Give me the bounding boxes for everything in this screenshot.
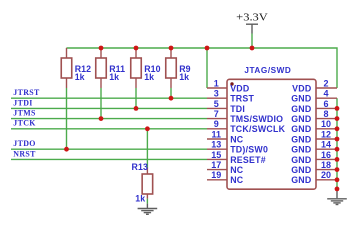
svg-text:6: 6: [323, 99, 328, 109]
svg-text:NC: NC: [230, 134, 244, 144]
svg-text:9: 9: [214, 119, 219, 129]
svg-text:15: 15: [211, 150, 221, 160]
svg-text:GND: GND: [291, 165, 311, 175]
svg-text:GND: GND: [291, 175, 311, 185]
svg-text:TCK/SWCLK: TCK/SWCLK: [230, 124, 285, 134]
svg-text:JTCK: JTCK: [13, 119, 36, 128]
svg-text:1k: 1k: [135, 193, 145, 203]
svg-text:JTAG/SWD: JTAG/SWD: [244, 66, 291, 75]
svg-text:10: 10: [321, 119, 331, 129]
svg-text:1k: 1k: [144, 72, 154, 82]
svg-text:JTMS: JTMS: [13, 109, 36, 118]
svg-text:1k: 1k: [109, 72, 119, 82]
svg-text:2: 2: [323, 78, 328, 88]
svg-text:13: 13: [211, 140, 221, 150]
svg-text:GND: GND: [291, 124, 311, 134]
svg-text:TD)/SW0: TD)/SW0: [230, 145, 268, 155]
svg-text:GND: GND: [291, 104, 311, 114]
svg-text:18: 18: [321, 160, 331, 170]
svg-text:1k: 1k: [179, 72, 189, 82]
svg-text:JTDI: JTDI: [13, 98, 32, 107]
svg-text:R13: R13: [132, 162, 148, 172]
svg-text:TRST: TRST: [230, 94, 254, 104]
svg-text:8: 8: [323, 109, 328, 119]
svg-text:JTDO: JTDO: [13, 139, 35, 148]
svg-text:14: 14: [321, 140, 331, 150]
svg-text:NC: NC: [230, 165, 244, 175]
svg-text:4: 4: [323, 89, 328, 99]
svg-text:3: 3: [214, 89, 219, 99]
svg-text:GND: GND: [291, 114, 311, 124]
svg-text:+3.3V: +3.3V: [236, 13, 268, 24]
svg-text:GND: GND: [291, 155, 311, 165]
svg-text:GND: GND: [291, 134, 311, 144]
svg-text:7: 7: [214, 109, 219, 119]
svg-text:TDI: TDI: [230, 104, 245, 114]
svg-text:16: 16: [321, 150, 331, 160]
svg-text:RESET#: RESET#: [230, 155, 266, 165]
svg-text:19: 19: [211, 170, 221, 180]
svg-text:NRST: NRST: [13, 149, 36, 158]
svg-text:JTRST: JTRST: [13, 88, 40, 97]
svg-text:NC: NC: [230, 175, 244, 185]
svg-text:TMS/SWDIO: TMS/SWDIO: [230, 114, 283, 124]
svg-text:5: 5: [214, 99, 219, 109]
svg-text:GND: GND: [291, 145, 311, 155]
svg-text:1k: 1k: [75, 72, 85, 82]
svg-text:17: 17: [211, 160, 221, 170]
svg-text:VDD: VDD: [230, 83, 249, 93]
svg-text:1: 1: [214, 78, 219, 88]
svg-text:VDD: VDD: [292, 83, 311, 93]
svg-text:20: 20: [321, 170, 331, 180]
svg-text:11: 11: [212, 129, 222, 139]
svg-text:GND: GND: [291, 94, 311, 104]
svg-text:12: 12: [321, 129, 331, 139]
